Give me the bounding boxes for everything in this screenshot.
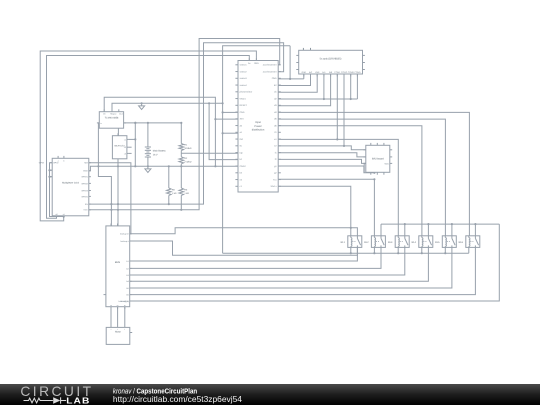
svg-text:SDA x: SDA x xyxy=(271,185,278,188)
svg-text:s0: s0 xyxy=(56,213,58,216)
svg-text:accelerometer: accelerometer xyxy=(263,70,277,73)
wire R1-R2 junction xyxy=(180,151,182,157)
svg-text:GPIO: GPIO xyxy=(39,162,45,165)
wire IC to IMU pin3 staircase xyxy=(278,159,366,163)
svg-text:c2: c2 xyxy=(124,146,126,149)
svg-text:VCC: VCC xyxy=(83,209,88,212)
wire R2 bottom lead xyxy=(180,164,182,167)
wire regulator right pin to R1 top xyxy=(124,122,182,124)
svg-text:GND: GND xyxy=(254,62,259,65)
svg-text:Regout: Regout xyxy=(110,112,117,115)
svg-text:Power: Power xyxy=(254,125,261,128)
wire R6 leads xyxy=(180,166,182,188)
wire IC pin to relay RL2 vertical jog xyxy=(278,166,374,173)
wire IC to IMU pin2 staircase xyxy=(278,153,366,157)
wire relay coil bottom bus xyxy=(223,252,469,254)
svg-text:RL2: RL2 xyxy=(364,241,369,244)
resistor R6 xyxy=(179,188,184,195)
wire net B: second left loop to IC top pin 1 xyxy=(47,56,250,219)
svg-text:R2: R2 xyxy=(184,157,188,160)
wire relay RL2 switch bottom to BMS xyxy=(130,247,381,268)
wire regulator pin1 5V rail xyxy=(104,97,215,166)
svg-text:R6: R6 xyxy=(184,188,188,191)
resistor R1 xyxy=(179,144,184,151)
svg-text:Motor: Motor xyxy=(115,330,121,333)
IMU board U3 block xyxy=(366,145,390,172)
svg-text:1 kΩ: 1 kΩ xyxy=(184,192,189,195)
svg-text:RL1: RL1 xyxy=(341,241,346,244)
IC U1 main Input Power distribution block xyxy=(238,61,278,193)
wire BMS pin2 line to relay RL1 switch bottom xyxy=(130,241,358,255)
svg-text:LAB: LAB xyxy=(66,396,90,405)
svg-text:sense4: sense4 xyxy=(240,84,248,87)
svg-text:10.9kΩ: 10.9kΩ xyxy=(184,147,191,150)
svg-text:s1: s1 xyxy=(63,213,65,216)
multiplexer pins xyxy=(89,162,91,164)
wire mux pin to IC right accel 1 (over the top, via x=199.1) xyxy=(89,39,280,210)
motor driver U2 pins xyxy=(303,74,305,76)
ground G2 under battery xyxy=(147,166,149,169)
relay RL5 xyxy=(442,236,456,248)
relay RL1 xyxy=(348,236,362,248)
wire net A: left outer loop to IC top pin 2 xyxy=(40,51,256,221)
svg-text:IO: IO xyxy=(274,131,277,134)
svg-text:5x axis (DRV8835): 5x axis (DRV8835) xyxy=(320,57,342,60)
svg-text:Input: Input xyxy=(255,121,261,124)
IC U1 top pins xyxy=(248,58,250,60)
wire IC to IMU pin1 staircase xyxy=(278,146,366,150)
svg-text:GPIO1: GPIO1 xyxy=(81,176,88,179)
svg-text:sense1: sense1 xyxy=(240,64,248,67)
svg-text:EN: EN xyxy=(85,203,88,206)
wire MCP pin3 stub xyxy=(129,152,132,154)
svg-text:RL6: RL6 xyxy=(459,241,464,244)
wire BMS bottom to Motor (3 wires) xyxy=(110,307,112,328)
relay RL6 xyxy=(466,236,480,248)
svg-text:GPIO2: GPIO2 xyxy=(81,182,88,185)
svg-text:accelerometer: accelerometer xyxy=(263,64,277,67)
svg-text:in: in xyxy=(100,122,101,125)
relay RL2 xyxy=(371,236,385,248)
BMS U7 block xyxy=(106,226,130,307)
wire IC left pin GND from long vertical xyxy=(223,111,238,113)
wire regulator left pin to BMS top pin1 xyxy=(98,123,111,226)
wire BMS pin9 outer loop to relay switch-top bus xyxy=(130,224,500,301)
svg-text:c1: c1 xyxy=(124,138,126,141)
svg-text:R1: R1 xyxy=(184,144,188,147)
wire branch to IC left pin via x=209.1 xyxy=(209,103,238,159)
svg-text:distribution: distribution xyxy=(252,129,265,132)
motor driver U2 block xyxy=(299,50,363,74)
wire relay RL3 switch bottom to BMS xyxy=(130,247,405,275)
wire DRV pin7 down to staircase xyxy=(343,74,345,146)
svg-text:SDA: SDA xyxy=(384,162,389,165)
battery BT1 main battery xyxy=(145,146,151,148)
wire MCP bottom to BMS top pin2 xyxy=(117,159,119,226)
charger U5 MCP block xyxy=(112,136,127,159)
multiplexer U6 block xyxy=(52,158,89,216)
BMS pins xyxy=(130,233,132,235)
svg-text:GND2: GND2 xyxy=(240,165,247,168)
regulator pins xyxy=(103,109,105,111)
IC U1 pin stubs and labels xyxy=(235,64,238,66)
wire IC left pin 3V3 from rail xyxy=(215,118,238,120)
wire bus to relay RL5 coil xyxy=(278,119,445,236)
svg-text:TL1963 4858: TL1963 4858 xyxy=(105,117,119,120)
svg-text:R5: R5 xyxy=(172,188,176,191)
resistor R2 xyxy=(179,157,184,164)
svg-text:GPIO4: GPIO4 xyxy=(81,195,88,198)
wire battery top lead xyxy=(147,123,149,147)
wire mux left pin 3 stub xyxy=(50,176,53,178)
wire R1 top lead xyxy=(180,123,182,144)
svg-text:photoresistor: photoresistor xyxy=(240,91,253,94)
wire DRV pin5 to IC xyxy=(278,74,330,106)
wire BMS pin1 to relay RL1 switch top xyxy=(130,228,358,236)
svg-text:Vout: Vout xyxy=(119,112,123,115)
wire relay RL5 switch bottom to BMS xyxy=(130,247,452,288)
svg-text:GND: GND xyxy=(301,71,306,74)
svg-text:COM9: COM9 xyxy=(354,71,361,74)
resistor R5 xyxy=(167,188,172,195)
wire MCP pin2 stub xyxy=(129,146,132,148)
wire relay RL6 switch bottom to BMS xyxy=(130,247,476,294)
wire regulator pin2 ground run xyxy=(112,103,223,111)
wire DRV pin6 down to bus xyxy=(336,74,338,139)
svg-text:Multiplexer 1x16: Multiplexer 1x16 xyxy=(62,181,79,184)
wire battery bottom lead xyxy=(147,157,149,166)
wire IC right pin row to DRV pin1 xyxy=(278,78,304,80)
svg-text:RL3: RL3 xyxy=(388,241,393,244)
svg-text:RESET: RESET xyxy=(240,104,248,107)
svg-text:GND: GND xyxy=(83,170,88,173)
relay RL4 xyxy=(419,236,433,248)
wire mux pin to IC right accel 2 (over the top, via x=203.5) xyxy=(89,43,284,204)
wire relay RL4 switch bottom to BMS xyxy=(130,247,429,281)
wire R5 leads xyxy=(168,166,170,188)
svg-text:16 V: 16 V xyxy=(153,153,158,156)
svg-text:Main Battery: Main Battery xyxy=(153,150,167,153)
svg-text:5v chg in: 5v chg in xyxy=(121,300,129,303)
wire bus to relay RL3 coil xyxy=(278,139,398,235)
svg-text:RL4: RL4 xyxy=(412,241,417,244)
svg-text:7.32kΩ: 7.32kΩ xyxy=(184,161,191,164)
voltage regulator U4 TL1963 block xyxy=(99,112,123,129)
wire relay RL1 switch bottom to BMS xyxy=(130,247,358,261)
svg-text:b: b xyxy=(63,159,64,162)
svg-text:Vin: Vin xyxy=(103,112,106,115)
wire IC pin to relay RL1 coil xyxy=(278,186,351,236)
wire regulator bottom to MCP top xyxy=(117,128,119,136)
IMU board pins xyxy=(363,149,365,151)
wire x=290.1 to IC right pin / DRV pin1 xyxy=(289,46,291,79)
wire bus to relay RL6 coil xyxy=(278,112,469,235)
motor M1 block xyxy=(106,327,130,344)
svg-text:1 kΩ: 1 kΩ xyxy=(172,192,177,195)
svg-text:BMS: BMS xyxy=(115,261,121,264)
svg-text:backup in: backup in xyxy=(120,233,129,236)
svg-text:GND: GND xyxy=(240,111,245,114)
svg-text:IMU board: IMU board xyxy=(372,158,384,161)
wire long 5V vertical x=222.6 down to relay coil bus xyxy=(223,46,291,253)
svg-text:backup o: backup o xyxy=(121,240,130,243)
wire IMU pin3 tail to RL2 net xyxy=(364,163,366,172)
wire GND bus xyxy=(89,166,238,171)
wire DRV pin2 to IC xyxy=(278,74,310,86)
wire DRV pin3 to IC xyxy=(278,74,317,92)
svg-text:SIG: SIG xyxy=(84,162,88,165)
charger U5 pins xyxy=(127,138,129,140)
wire bus to relay RL4 coil xyxy=(278,126,422,236)
wire mux left pin 2 stub xyxy=(50,169,53,171)
ground G1 xyxy=(141,103,143,106)
wire relay switch-top bus xyxy=(381,223,499,225)
svg-text:GPIO3: GPIO3 xyxy=(81,189,88,192)
svg-text:http://circuitlab.com/ce5t3zp6: http://circuitlab.com/ce5t3zp6evj54 xyxy=(113,395,242,404)
wire multiplexer left-pin comb xyxy=(50,163,64,217)
wire IC pin to relay RL2 coil xyxy=(278,179,374,236)
relay RL3 xyxy=(395,236,409,248)
svg-text:GND: GND xyxy=(272,77,277,80)
wire DRV pin4+8+9 net y=99 xyxy=(323,74,325,99)
wire R1-R2 tap to IC analog pin xyxy=(181,152,238,154)
svg-text:sense3: sense3 xyxy=(240,77,248,80)
svg-text:GND1: GND1 xyxy=(240,97,247,100)
svg-text:sense2: sense2 xyxy=(240,70,248,73)
svg-text:RL5: RL5 xyxy=(435,241,440,244)
wire IC left pin from long vertical xyxy=(223,132,238,134)
wire mux pin SIG to BMS pin 1 xyxy=(89,163,131,234)
svg-text:c3: c3 xyxy=(124,152,126,155)
wire MCP pin1 riser xyxy=(129,138,135,140)
